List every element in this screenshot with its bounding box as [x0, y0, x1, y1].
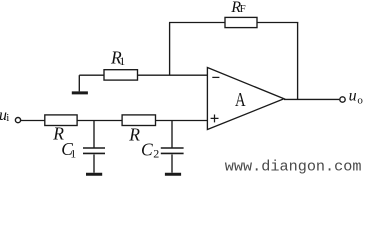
svg-text:u: u [349, 88, 357, 105]
svg-text:2: 2 [153, 147, 159, 161]
svg-text:o: o [357, 94, 363, 106]
svg-text:1: 1 [70, 146, 76, 160]
svg-text:1: 1 [119, 54, 125, 68]
svg-text:R: R [128, 125, 140, 145]
svg-text:www.diangon.com: www.diangon.com [225, 157, 362, 175]
svg-text:C: C [141, 139, 153, 159]
svg-text:i: i [6, 112, 9, 124]
svg-text:A: A [235, 89, 246, 111]
svg-text:F: F [240, 3, 246, 15]
